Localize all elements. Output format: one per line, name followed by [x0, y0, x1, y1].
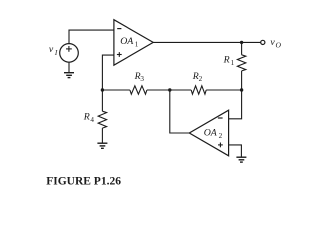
plus sign OA1 — [117, 52, 122, 57]
svg-text:R4: R4 — [83, 112, 95, 124]
wire vI bottom — [68, 62, 70, 72]
resistor R2 — [191, 86, 206, 94]
wire middle rail left — [102, 89, 129, 91]
terminal vO — [261, 40, 265, 44]
svg-text:vO: vO — [270, 37, 281, 50]
minus sign OA2 — [218, 117, 223, 119]
resistor R3 — [130, 86, 147, 94]
resistor R1 — [241, 42, 243, 54]
op-amp OA1 — [114, 20, 153, 65]
wire OA2 plus input — [229, 145, 242, 157]
svg-text:R1: R1 — [223, 55, 235, 68]
node junction OA2 output — [168, 88, 171, 91]
wire OA1 plus input — [102, 55, 114, 90]
node junction left rail — [101, 88, 104, 91]
plus sign OA2 — [218, 143, 223, 148]
wire OA2 output to rail — [170, 90, 190, 133]
svg-text:R3: R3 — [134, 71, 145, 83]
voltage source vI — [60, 44, 79, 63]
ground (R4) — [97, 143, 107, 148]
plus sign inside vI — [66, 46, 72, 52]
svg-text:vI: vI — [49, 44, 58, 57]
ground (vI) — [64, 73, 74, 78]
node junction at R1 top — [240, 41, 243, 44]
op-amp OA2 — [189, 110, 228, 156]
wire OA2 minus input — [229, 90, 242, 119]
minus sign OA1 — [117, 28, 121, 30]
node junction R1 bottom — [240, 88, 243, 91]
wire middle rail right — [206, 89, 241, 91]
wire vI top to OA1 minus input — [69, 30, 114, 43]
wire output rail OA1 to vO — [153, 41, 260, 43]
svg-text:R2: R2 — [192, 71, 203, 83]
ground (OA2) — [236, 157, 246, 162]
svg-text:FIGURE P1.26: FIGURE P1.26 — [46, 176, 121, 188]
wire middle rail center — [147, 89, 191, 91]
resistor R4 — [101, 90, 103, 111]
